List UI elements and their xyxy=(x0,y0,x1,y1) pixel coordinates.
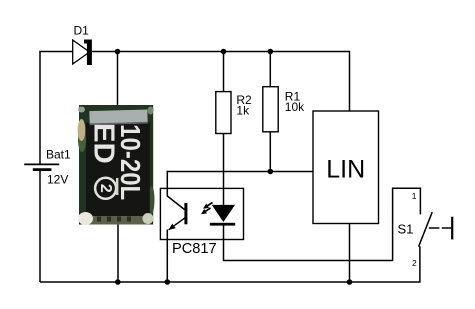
svg-text:ED: ED xyxy=(88,123,120,164)
svg-text:12V: 12V xyxy=(47,173,68,187)
svg-text:2: 2 xyxy=(97,184,114,193)
svg-text:S1: S1 xyxy=(398,222,414,237)
svg-text:2: 2 xyxy=(412,258,417,268)
svg-text:1: 1 xyxy=(412,191,417,201)
svg-text:D1: D1 xyxy=(74,24,90,38)
svg-text:LIN: LIN xyxy=(326,156,365,184)
svg-text:PC817: PC817 xyxy=(172,241,217,257)
svg-text:10k: 10k xyxy=(285,100,305,114)
svg-text:Bat1: Bat1 xyxy=(46,148,71,162)
svg-text:1k: 1k xyxy=(236,104,250,118)
